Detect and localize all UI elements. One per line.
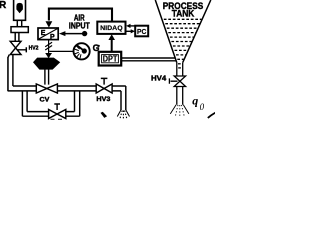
outlet spray — [170, 105, 189, 114]
supply pipe down from HV2 and elbow to CV line — [8, 55, 13, 92]
bypass pipe (lower) — [22, 112, 79, 117]
actuator of control valve — [33, 58, 60, 70]
svg-text:HV2: HV2 — [29, 45, 39, 51]
drain spray — [117, 110, 129, 117]
rotameter float — [16, 3, 23, 13]
svg-text:E: E — [41, 30, 46, 37]
pressure gauge G — [74, 43, 90, 59]
rotameter flange — [11, 27, 28, 33]
pipe stem below flange — [15, 33, 19, 42]
DPT box — [99, 52, 122, 66]
svg-text:P: P — [50, 34, 55, 41]
arrow DPT to NIDAQ — [111, 40, 113, 52]
main pipe run (upper) — [8, 86, 126, 91]
NIDAQ box — [97, 22, 125, 34]
bypass riser (right) — [75, 91, 80, 116]
arrowhead into E/P top — [46, 21, 53, 27]
line to pressure gauge G — [49, 50, 73, 52]
rotameter R tube — [14, 0, 26, 20]
PC box — [135, 26, 148, 37]
valve HV4 — [169, 76, 185, 87]
svg-text:DPT: DPT — [103, 55, 118, 64]
valve stem CV — [45, 69, 49, 84]
control line NIDAQ to E/P — [49, 9, 112, 22]
svg-text:NIDAQ: NIDAQ — [100, 25, 123, 32]
tank outlet pipe below HV4 — [177, 87, 183, 105]
DPT sensing line to tank — [121, 58, 176, 61]
tank neck — [177, 63, 183, 76]
svg-text:CV: CV — [40, 97, 51, 104]
corner arrow mark — [208, 112, 216, 118]
svg-text:HV3: HV3 — [96, 96, 110, 103]
arrow NIDAQ to PC — [126, 30, 131, 32]
control valve CV — [36, 84, 57, 93]
svg-text:PC: PC — [137, 27, 147, 36]
valve HV2 — [10, 41, 26, 54]
flow flick arrow — [101, 112, 108, 118]
arrowhead onto actuator — [45, 53, 52, 58]
svg-text:R: R — [0, 0, 7, 11]
svg-text:INPUT: INPUT — [69, 22, 90, 31]
pneumatic signal line below E/P — [48, 40, 50, 54]
tank liquid hatching — [164, 19, 202, 68]
bypass branch down (left) — [22, 91, 27, 116]
valve HV3 — [96, 78, 112, 93]
svg-text:q: q — [192, 94, 198, 108]
air input line with dot — [64, 33, 85, 35]
bypass valve — [49, 104, 66, 119]
clipped label below bypass valve — [51, 118, 63, 120]
arrow PC to NIDAQ — [130, 25, 135, 27]
drain pipe after HV3 — [121, 86, 126, 110]
svg-text:TANK: TANK — [172, 9, 195, 19]
pipe stem below rotameter — [17, 20, 21, 26]
svg-text:HV4: HV4 — [151, 74, 167, 83]
process tank walls — [155, 0, 211, 63]
svg-text:0: 0 — [200, 102, 205, 112]
E/P transducer U1 — [38, 28, 58, 40]
